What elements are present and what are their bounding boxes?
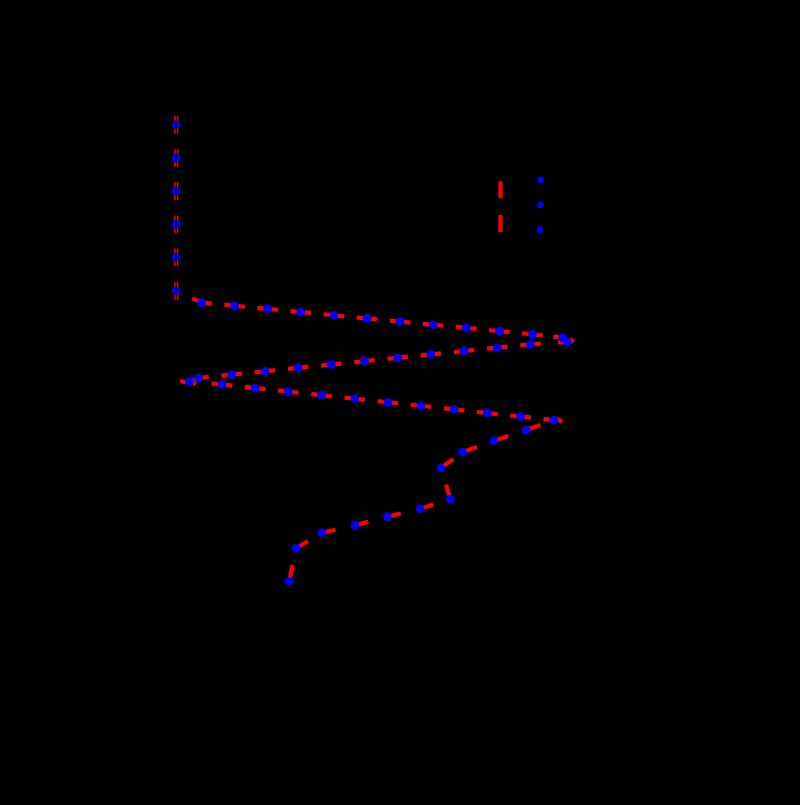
black y-axis line over column [175, 104, 177, 588]
dashed red data line segments [176, 116, 573, 577]
legend red dashed line sample [498, 181, 502, 232]
blue data point markers [172, 120, 572, 585]
legend blue point samples [537, 176, 544, 233]
